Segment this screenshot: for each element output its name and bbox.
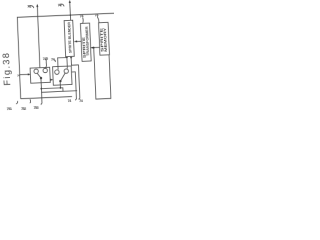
svg-text:74: 74 xyxy=(68,99,72,103)
svg-text:751: 751 xyxy=(7,107,12,111)
svg-text:SPRITE BLENDER: SPRITE BLENDER xyxy=(67,21,72,53)
svg-text:74: 74 xyxy=(80,14,84,18)
svg-text:74: 74 xyxy=(79,99,83,103)
svg-text:Fig.38: Fig.38 xyxy=(1,51,12,85)
svg-text:74: 74 xyxy=(51,58,55,62)
svg-text:741: 741 xyxy=(27,4,31,8)
svg-text:753: 753 xyxy=(33,106,38,110)
svg-text:74: 74 xyxy=(95,13,99,17)
svg-text:745: 745 xyxy=(43,57,48,61)
svg-text:TRANSFORMER: TRANSFORMER xyxy=(85,26,90,56)
svg-text:752: 752 xyxy=(21,107,26,111)
svg-text:MEMORY: MEMORY xyxy=(103,27,108,52)
